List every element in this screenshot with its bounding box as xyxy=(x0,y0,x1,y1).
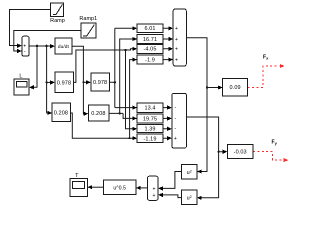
svg-text:+: + xyxy=(153,193,156,199)
junction 0.978a-out branch xyxy=(124,49,126,51)
source block Ramp1 xyxy=(81,23,96,38)
gain 0.978a xyxy=(55,72,74,92)
derivative block du/dt xyxy=(55,38,72,54)
wire branch to L display xyxy=(34,46,38,87)
gain -4.05 xyxy=(137,44,163,53)
wire u2b output to Sum4 xyxy=(163,195,182,198)
ramp icons xyxy=(53,5,95,37)
sqrt block u^0.5 xyxy=(104,180,136,195)
red dashed Fy xyxy=(253,152,284,161)
svg-text:+: + xyxy=(175,58,178,64)
source block Ramp xyxy=(51,3,64,17)
svg-text:0.208: 0.208 xyxy=(54,111,68,117)
junction sum1-out to gains xyxy=(45,45,48,48)
svg-text:6.01: 6.01 xyxy=(144,26,155,32)
gain 19.75 xyxy=(137,114,163,123)
junction 0.208a-out branch xyxy=(129,137,131,139)
svg-text:0.978: 0.978 xyxy=(57,80,71,86)
wire Sum1 output to du/dt xyxy=(29,45,51,47)
sum block Sum2 xyxy=(173,9,186,66)
gain 1.39 xyxy=(137,124,163,132)
svg-text:-4.05: -4.05 xyxy=(143,47,156,53)
junction 0.208b-out xyxy=(119,112,121,114)
junction Sum2-out to 0.09 xyxy=(206,86,208,88)
wire branch to gain 0.978a xyxy=(47,81,51,83)
gain -1.9 xyxy=(137,55,163,64)
display -0.03 xyxy=(227,145,253,159)
sum block Sum1 xyxy=(22,36,29,56)
red dashed Fx xyxy=(248,66,280,88)
svg-text:Fy: Fy xyxy=(272,140,278,146)
svg-text:+: + xyxy=(175,37,178,43)
svg-text:0.09: 0.09 xyxy=(230,85,241,91)
wire branch to gain 0.208a xyxy=(47,46,49,113)
wire 0.208b output to 16.71 and 19.75 xyxy=(109,39,133,118)
svg-text:+: + xyxy=(175,47,178,53)
svg-text:19.75: 19.75 xyxy=(143,116,157,122)
svg-text:-0.03: -0.03 xyxy=(234,150,247,156)
sum block Sum3 xyxy=(172,93,187,148)
svg-text:u^0.5: u^0.5 xyxy=(113,186,126,192)
svg-text:Ramp: Ramp xyxy=(50,18,65,24)
wire 0.978a output to -4.05 xyxy=(74,49,134,83)
wire Sum2 output to 0.09 and u2a xyxy=(186,38,218,172)
junction 0.978b-out xyxy=(114,81,116,83)
gain 16.71 xyxy=(137,35,163,44)
svg-text:Fx: Fx xyxy=(263,55,269,61)
gain 13.4 xyxy=(137,103,163,112)
display 0.09 xyxy=(223,79,248,96)
svg-text:+: + xyxy=(175,26,178,32)
svg-text:-1.9: -1.9 xyxy=(145,58,155,64)
gain 0.208b xyxy=(88,105,109,121)
junction Sum3-out to -0.03 xyxy=(217,151,219,153)
gain 0.208a xyxy=(52,103,70,121)
wire branch to 1.39 xyxy=(126,50,134,129)
svg-text:-1.19: -1.19 xyxy=(143,136,156,142)
arrowheads xyxy=(17,26,227,200)
svg-text:+: + xyxy=(153,186,156,192)
wires gains to Sum2 xyxy=(163,28,169,59)
wire Sum3 output to -0.03 and u2b xyxy=(186,117,223,198)
gain 0.978b xyxy=(91,73,110,91)
wire sqrt output to T scope xyxy=(92,186,104,188)
svg-text:0.978: 0.978 xyxy=(93,80,107,86)
math block u2a xyxy=(182,165,198,180)
wires gains to Sum3 xyxy=(163,108,168,139)
svg-text:du/dt: du/dt xyxy=(58,44,70,50)
math block u2b xyxy=(182,190,198,205)
svg-text:1.39: 1.39 xyxy=(144,127,155,133)
junction du/dt-out to 0.978b xyxy=(82,81,84,83)
gain -1.19 xyxy=(137,134,163,143)
wire u2a output to Sum4 xyxy=(163,172,182,189)
wire branch to -1.9 xyxy=(130,60,134,139)
scope block T xyxy=(70,179,88,197)
junction to 0.978a xyxy=(46,81,48,83)
svg-text:13.4: 13.4 xyxy=(144,106,155,112)
svg-text:16.71: 16.71 xyxy=(143,37,157,43)
wire Ramp output to Sum1 xyxy=(10,10,51,46)
scope block L xyxy=(14,79,29,95)
wire 0.978b output to 6.01 and 13.4 xyxy=(109,28,133,107)
wire 0.208a output to -1.19 xyxy=(71,113,134,138)
wire Sum4 output to sqrt xyxy=(140,187,147,189)
junction sum1-out to L xyxy=(36,45,39,48)
svg-text:Ramp1: Ramp1 xyxy=(79,16,97,22)
wire Ramp1 output to Sum1 xyxy=(14,31,81,52)
svg-text:+: + xyxy=(174,136,177,142)
svg-text:L: L xyxy=(19,74,22,80)
wire du/dt output down xyxy=(72,46,85,113)
sum block Sum4 xyxy=(147,176,158,200)
svg-text:0.208: 0.208 xyxy=(91,111,105,117)
gain 6.01 xyxy=(137,24,163,33)
wire branch to gain 0.978b xyxy=(83,81,87,83)
